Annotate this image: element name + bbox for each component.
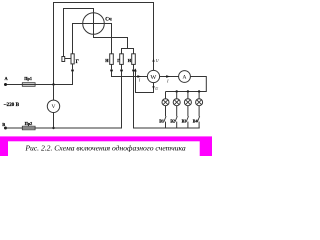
svg-text:Н: Н xyxy=(128,58,132,63)
svg-text:В2: В2 xyxy=(170,119,175,124)
voltmeter V xyxy=(47,100,59,112)
meter disc Сч xyxy=(83,13,105,35)
svg-text:Пр2: Пр2 xyxy=(25,121,33,126)
wire lamp1 lower stub xyxy=(165,106,167,117)
lamp Л1 xyxy=(162,99,169,106)
svg-text:I: I xyxy=(138,78,141,83)
svg-text:Г: Г xyxy=(117,58,120,63)
wattmeter W xyxy=(147,70,159,82)
switch В1 blade xyxy=(164,116,166,122)
caption white box xyxy=(8,141,200,156)
node dot under Г xyxy=(71,69,74,72)
terminal dot А xyxy=(4,83,7,86)
fuse Пр1 xyxy=(22,83,35,87)
junction dot lamp3 xyxy=(187,90,189,92)
svg-text:В4: В4 xyxy=(193,119,198,124)
wire Н2 to neutral bus under lamps xyxy=(134,72,200,128)
wire voltage-tap loop (phase: left riser, top run, right riser to W) xyxy=(54,3,154,85)
terminal clamp Г2 xyxy=(120,54,124,65)
wire switch1 bottom stub xyxy=(165,122,167,128)
svg-text:Г: Г xyxy=(76,59,80,65)
current arrow I at wattmeter xyxy=(137,75,141,78)
wire switch4 bottom stub xyxy=(198,122,200,128)
svg-text:Рис. 2.2. Схема включения одно: Рис. 2.2. Схема включения однофазного сч… xyxy=(24,143,186,152)
wire voltmeter riser top xyxy=(53,85,55,101)
wire lamp3 lower stub xyxy=(187,106,189,117)
wire lamp2 lower stub xyxy=(176,106,178,117)
terminal clamp Н1 xyxy=(110,54,114,65)
svg-text:В1: В1 xyxy=(159,119,164,124)
svg-text:В: В xyxy=(2,122,5,127)
wire lamp4 top stub xyxy=(198,92,200,99)
wire wattmeter to ammeter xyxy=(160,76,179,78)
wire ammeter to lamp bus xyxy=(166,77,207,92)
lamp Л3 group xyxy=(184,92,191,129)
lamp Л4 xyxy=(196,99,203,106)
junction dot phase/voltmeter riser xyxy=(52,83,54,85)
wire stub below Г clamp xyxy=(72,64,74,69)
node dot Н1 xyxy=(110,69,113,72)
lamp Л3 xyxy=(184,99,191,106)
wire neutral line to terminal Г2 xyxy=(6,72,122,128)
wire lamp3 top stub xyxy=(187,92,189,99)
svg-text:Н: Н xyxy=(105,58,109,63)
terminal clamp Н2 xyxy=(132,54,136,65)
svg-text:V: V xyxy=(51,104,55,110)
wire bridge to terminals Г and Н xyxy=(122,49,134,55)
wire stub below Г2 xyxy=(121,64,123,69)
fuse Пр2 xyxy=(22,126,35,130)
svg-text:Пр1: Пр1 xyxy=(24,76,32,81)
junction dot lamp2 xyxy=(176,90,178,92)
svg-text:Сч: Сч xyxy=(105,18,112,23)
junction dot lamp4 xyxy=(198,90,200,92)
switch В3 blade xyxy=(186,116,188,122)
wire through fuse Пр1 xyxy=(22,84,35,86)
svg-text:I: I xyxy=(166,78,169,83)
svg-text:U: U xyxy=(155,86,159,91)
terminal small box left xyxy=(62,57,65,62)
lamp Л2 group xyxy=(173,92,180,129)
terminal dot В xyxy=(4,127,7,130)
current arrow I at ammeter xyxy=(166,75,170,78)
terminal clamp Г xyxy=(71,54,74,64)
wire lamp1 top stub xyxy=(165,92,167,99)
svg-text:~220 В: ~220 В xyxy=(4,102,20,108)
svg-text:А: А xyxy=(5,76,9,81)
switch В4 blade xyxy=(197,116,199,122)
lamp Л2 xyxy=(173,99,180,106)
arrow up on U loop xyxy=(134,68,136,71)
wire Н1 to wattmeter current input xyxy=(112,72,148,77)
node dot Г2 xyxy=(120,69,123,72)
wire switch3 bottom stub xyxy=(187,122,189,128)
wire switch2 bottom stub xyxy=(176,122,178,128)
wire voltage-coil bar through meter disc xyxy=(73,24,112,55)
wire current-coil loop through meter disc xyxy=(64,9,128,57)
caption highlight band xyxy=(0,136,212,156)
wire stub below Н1 xyxy=(111,64,113,69)
ammeter А xyxy=(179,71,191,83)
wire lamp2 top stub xyxy=(176,92,178,99)
svg-text:W: W xyxy=(150,74,156,81)
svg-text:U: U xyxy=(156,58,160,63)
lamp Л1 group xyxy=(162,92,169,129)
wire link small box to clamp Г xyxy=(65,58,71,60)
junction dot neutral/voltmeter xyxy=(52,127,54,129)
wire lamp4 lower stub xyxy=(198,106,200,117)
wire through fuse Пр2 xyxy=(22,127,35,129)
node dot Н2 xyxy=(132,69,135,72)
wire voltmeter riser bottom xyxy=(53,113,55,129)
svg-text:А: А xyxy=(183,74,187,80)
wire wattmeter voltage loop (bottom U terminal) xyxy=(136,70,154,93)
arrow up on W top riser xyxy=(152,58,154,61)
wire from Г dot to phase line xyxy=(6,72,73,85)
wire stub below Н2 xyxy=(133,64,135,69)
lamp Л4 group xyxy=(196,92,203,129)
svg-text:В3: В3 xyxy=(182,119,187,124)
arrow down on W bottom stub xyxy=(152,86,154,89)
switch В2 blade xyxy=(175,116,177,122)
